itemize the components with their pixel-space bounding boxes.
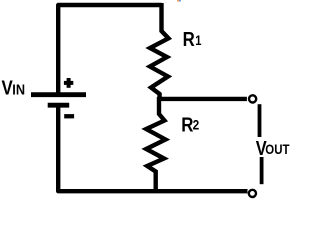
- svg-text:1: 1: [195, 33, 201, 48]
- label VOUT: [256, 136, 290, 159]
- battery V_IN bottom plate (-): [48, 103, 69, 108]
- terminal: top output (open circle): [249, 95, 256, 102]
- label R1: [183, 28, 202, 51]
- label R2: [181, 113, 199, 136]
- battery V_IN top plate (+): [31, 92, 86, 97]
- terminal: bottom output (open circle): [249, 190, 256, 197]
- node: middle junction wire to output: [158, 97, 247, 101]
- battery minus sign: [64, 114, 74, 118]
- svg-text:OUT: OUT: [265, 142, 290, 157]
- wire: left vertical and top rail: [58, 5, 162, 93]
- battery plus sign: [64, 78, 73, 88]
- resistor R2: [146, 97, 165, 191]
- label VIN: [2, 76, 26, 99]
- resistor R1: [150, 3, 169, 101]
- svg-text:IN: IN: [12, 81, 25, 98]
- wire: left vertical lower and bottom rail: [58, 105, 247, 191]
- wire: V_OUT lower lead: [260, 157, 264, 184]
- wire: V_OUT upper lead: [258, 104, 262, 137]
- svg-text:R: R: [183, 28, 196, 51]
- svg-text:2: 2: [193, 117, 200, 133]
